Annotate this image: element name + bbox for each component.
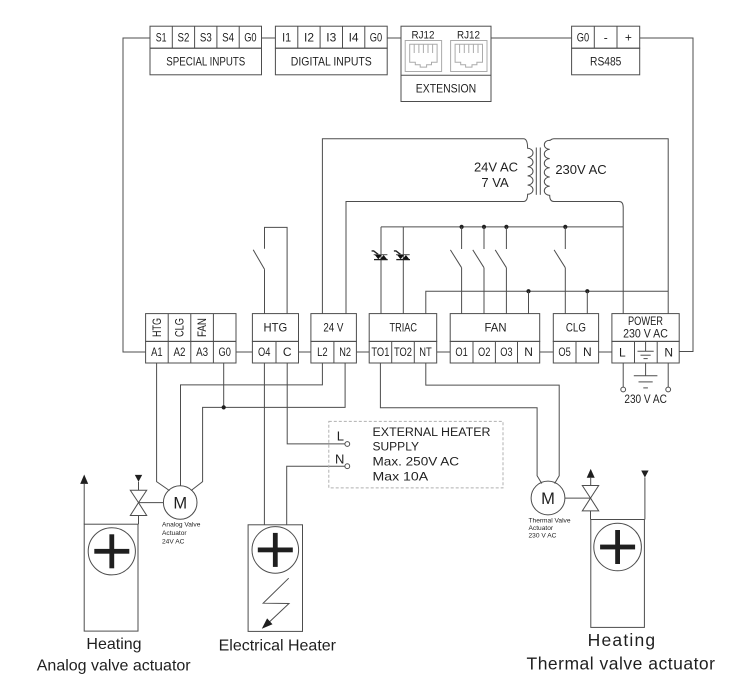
terminal block SPECIAL INPUTS — [150, 26, 262, 75]
svg-text:TO1: TO1 — [371, 345, 389, 359]
transformer T1 secondary winding path (to POWER N, coil, to POWER L) — [544, 139, 668, 314]
supply terminal circle L — [345, 442, 350, 447]
svg-text:I1: I1 — [282, 31, 291, 45]
svg-text:Thermal Valve: Thermal Valve — [529, 517, 571, 524]
svg-text:POWER: POWER — [628, 316, 663, 328]
svg-text:Thermal valve actuator: Thermal valve actuator — [527, 654, 716, 674]
svg-text:Analog valve actuator: Analog valve actuator — [37, 658, 192, 675]
wire A G0 to HTG O4 — [236, 351, 252, 353]
wire N bus — [426, 291, 668, 313]
connector EXTENSION box with RJ12 jacks — [401, 26, 491, 101]
wire supply N to heater — [287, 466, 345, 525]
svg-text:HTG: HTG — [152, 318, 164, 337]
lightning bolt in heater — [263, 578, 289, 623]
wire valve to analog M — [139, 502, 164, 504]
svg-text:-: - — [604, 31, 608, 45]
svg-text:O3: O3 — [500, 345, 513, 359]
wire TO1 down to thermal M — [380, 363, 541, 484]
transformer T1 primary winding path (L2 up, coil, down to N2) — [322, 139, 533, 314]
svg-text:O5: O5 — [558, 345, 571, 359]
svg-text:24V AC: 24V AC — [162, 539, 185, 546]
terminal circle N — [666, 387, 671, 392]
svg-text:L: L — [337, 428, 344, 443]
stem below arrow V1 — [138, 482, 140, 491]
switch HTG O4 loop — [253, 227, 287, 313]
wire TRIAC NT to FAN O1 — [437, 351, 451, 353]
svg-text:+: + — [625, 31, 632, 45]
svg-text:S4: S4 — [222, 31, 234, 45]
switch FAN O2 — [473, 227, 484, 314]
svg-text:EXTERNAL HEATER: EXTERNAL HEATER — [373, 425, 491, 439]
marker arrow down right of radiator — [644, 478, 646, 520]
wire thermal M to valve — [565, 497, 591, 499]
ground symbol below POWER — [634, 363, 658, 388]
svg-text:EXTENSION: EXTENSION — [416, 82, 477, 96]
svg-text:24V AC: 24V AC — [474, 160, 518, 175]
radiator heating thermal — [591, 520, 645, 628]
svg-text:Max. 250V AC: Max. 250V AC — [373, 455, 460, 469]
svg-text:G0: G0 — [244, 31, 257, 45]
heater circle plus — [252, 527, 299, 574]
wire G0 down to junction — [223, 363, 225, 407]
wire S1 left to A1 block — [123, 38, 150, 352]
svg-text:CLG: CLG — [175, 318, 187, 337]
dashed box EXTERNAL HEATER SUPPLY — [329, 421, 503, 488]
svg-text:N2: N2 — [339, 345, 351, 359]
terminal block FAN O1 O2 O3 N — [450, 314, 540, 363]
wire digital G0 to extension — [387, 37, 401, 39]
svg-text:Electrical Heater: Electrical Heater — [219, 638, 337, 655]
svg-text:NT: NT — [419, 345, 432, 359]
wire 24V N2 to TRIAC TO1 — [356, 351, 369, 353]
svg-text:230V AC: 230V AC — [555, 162, 606, 177]
svg-text:O2: O2 — [478, 345, 491, 359]
switch FAN O1 — [450, 227, 461, 314]
terminal block TRIAC TO1 TO2 NT — [369, 314, 437, 363]
svg-text:Heating: Heating — [588, 630, 657, 650]
svg-text:A3: A3 — [196, 345, 208, 359]
triac TO2 wire — [402, 227, 404, 314]
earth symbol in cell — [638, 341, 654, 358]
wire FAN N to CLG O5 — [540, 351, 554, 353]
svg-text:230 V AC: 230 V AC — [624, 394, 667, 406]
svg-text:Analog Valve: Analog Valve — [162, 522, 201, 529]
triac TO1 wire — [380, 227, 382, 314]
stem valve V1 to radiator — [138, 516, 140, 525]
svg-text:L: L — [619, 346, 626, 360]
terminal block 24 V L2 N2 — [311, 314, 357, 363]
wire RS485 + to POWER N right — [640, 38, 693, 352]
svg-text:Actuator: Actuator — [529, 525, 554, 532]
terminal block HTG O4 C — [252, 314, 298, 363]
svg-text:SUPPLY: SUPPLY — [373, 440, 420, 454]
wire CLG N up — [586, 291, 588, 313]
svg-text:24 V: 24 V — [323, 321, 344, 335]
radiator circle plus analog — [88, 528, 135, 575]
wire NT down to thermal M — [426, 363, 559, 484]
svg-text:N: N — [335, 452, 344, 467]
wire 230V switch bus — [381, 226, 623, 228]
svg-text:O4: O4 — [258, 345, 271, 359]
svg-text:CLG: CLG — [566, 321, 586, 335]
triac symbol 2 — [394, 251, 410, 260]
terminal block DIGITAL INPUTS — [275, 26, 387, 75]
svg-text:I2: I2 — [304, 31, 314, 45]
radiator circle plus thermal — [594, 523, 642, 571]
wire FAN N up — [528, 291, 530, 313]
svg-text:O1: O1 — [455, 345, 468, 359]
marker arrow up above valve V2 — [587, 469, 595, 478]
svg-text:7 VA: 7 VA — [481, 175, 509, 190]
svg-text:M: M — [173, 495, 187, 513]
RJ12 jack 1 — [405, 41, 441, 72]
svg-text:RJ12: RJ12 — [412, 30, 435, 42]
label Thermal Valve Actuator 230 V AC — [529, 517, 571, 539]
svg-text:FAN: FAN — [197, 318, 209, 337]
triac symbol 1 — [372, 251, 388, 260]
svg-text:TRIAC: TRIAC — [390, 321, 418, 335]
svg-text:HTG: HTG — [264, 321, 288, 335]
svg-text:S3: S3 — [200, 31, 212, 45]
label 24V AC 7 VA — [474, 160, 518, 191]
wire POWER N down to supply circle — [667, 363, 669, 387]
svg-text:Heating: Heating — [86, 636, 141, 653]
svg-text:FAN: FAN — [485, 321, 507, 335]
svg-text:RJ12: RJ12 — [457, 30, 480, 42]
svg-text:SPECIAL INPUTS: SPECIAL INPUTS — [166, 55, 245, 69]
stem valve V2 to radiator — [590, 511, 592, 520]
switch FAN O3 — [495, 227, 506, 314]
svg-text:N: N — [664, 346, 673, 360]
motor M analog valve actuator U1 — [163, 486, 197, 520]
marker arrow down above valve V1 — [135, 475, 142, 482]
svg-text:S2: S2 — [178, 31, 190, 45]
wire CLG N to POWER L — [599, 351, 612, 353]
svg-text:RS485: RS485 — [590, 55, 621, 69]
junction dot G0/N2 — [222, 405, 226, 409]
wire O4 down to heater — [263, 363, 265, 525]
radiator heating analog — [84, 524, 138, 631]
svg-text:DIGITAL INPUTS: DIGITAL INPUTS — [291, 55, 372, 69]
svg-text:S1: S1 — [156, 31, 167, 45]
terminal circle L — [621, 387, 626, 392]
svg-text:G0: G0 — [577, 31, 590, 45]
svg-text:TO2: TO2 — [394, 345, 412, 359]
svg-text:C: C — [283, 345, 292, 359]
RJ12 jack 2 — [451, 41, 487, 72]
motor M thermal valve actuator U2 — [531, 481, 565, 515]
wire HTG C to 24V L2 — [299, 351, 311, 353]
arrow up left of radiator — [83, 484, 85, 524]
svg-text:A2: A2 — [174, 345, 186, 359]
supply terminal circle N — [345, 464, 350, 469]
junction dots on buses — [460, 225, 590, 294]
valve V2 thermal — [582, 486, 598, 511]
svg-text:M: M — [541, 490, 555, 508]
svg-text:Actuator: Actuator — [162, 530, 187, 537]
terminal block RS485 — [572, 26, 640, 75]
svg-text:G0: G0 — [370, 31, 383, 45]
svg-text:G0: G0 — [219, 345, 232, 359]
terminal block POWER 230 V AC — [612, 314, 679, 363]
terminal block A1 A2 A3 G0 with HTG CLG FAN labels — [146, 314, 236, 363]
wire G0 to I1 — [262, 37, 276, 39]
electrical heater box — [248, 525, 302, 632]
svg-text:N: N — [524, 345, 533, 359]
label Analog Valve Actuator 24V AC — [162, 522, 201, 546]
terminal block CLG O5 N — [553, 314, 598, 363]
wire A1 down to analog M — [157, 363, 170, 491]
wire extension to RS485 — [491, 37, 572, 39]
stem arrow V2 — [590, 478, 592, 486]
wire POWER L down to supply circle — [622, 363, 624, 387]
svg-text:N: N — [583, 345, 592, 359]
label EXTERNAL HEATER SUPPLY text — [373, 425, 491, 484]
svg-text:A1: A1 — [151, 345, 163, 359]
svg-text:Max 10A: Max 10A — [373, 470, 430, 484]
svg-text:230 V AC: 230 V AC — [623, 329, 668, 341]
transformer T1 core — [535, 148, 537, 195]
svg-text:I4: I4 — [349, 31, 359, 45]
svg-text:I3: I3 — [326, 31, 336, 45]
wire C down to supply L — [287, 363, 345, 444]
valve V1 analog — [130, 490, 146, 515]
wire N2 down-left to analog M — [191, 363, 345, 491]
svg-text:L2: L2 — [317, 345, 328, 359]
svg-text:230 V AC: 230 V AC — [529, 532, 557, 539]
switch CLG O5 — [554, 227, 565, 314]
wire L2 down-left to analog M — [181, 363, 323, 486]
